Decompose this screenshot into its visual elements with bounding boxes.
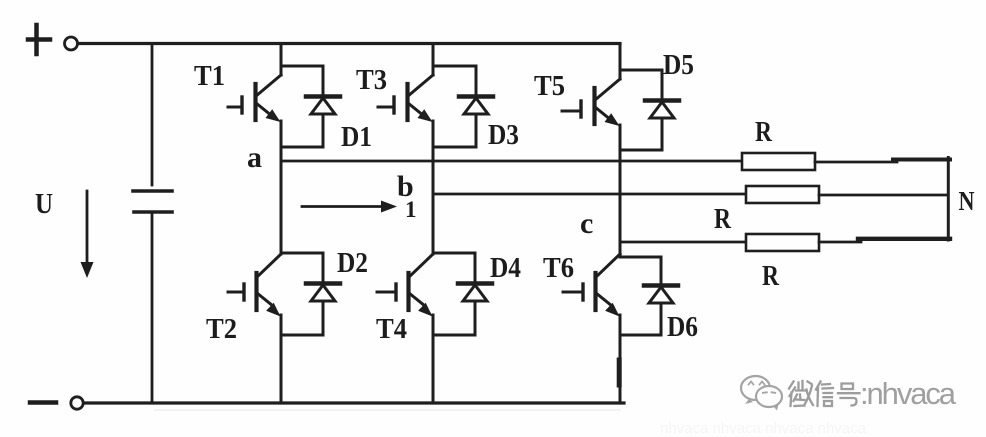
arrow: U direction [81, 191, 94, 278]
微 [789, 381, 813, 406]
svg-text:R: R [762, 260, 780, 292]
svg-text:c: c [580, 207, 593, 240]
wire: leg b upper [432, 44, 435, 76]
svg-text:D6: D6 [667, 311, 698, 343]
wire: leg a lower [280, 315, 283, 403]
svg-text:U: U [35, 189, 53, 220]
watermark wechat icon [741, 376, 782, 411]
diode D1 [281, 66, 340, 147]
svg-text:R: R [714, 203, 732, 235]
wire: phase c to N [819, 241, 861, 244]
transistor T5 [562, 79, 620, 126]
transistor T4 [377, 254, 433, 317]
transistor T6 [563, 254, 620, 317]
arrow: current direction [302, 201, 397, 213]
watermark text 微信号 (drawn strokes) [789, 381, 860, 406]
diode D4 [433, 253, 492, 335]
- terminal [30, 400, 56, 405]
capacitor C (dc link) [133, 44, 172, 404]
svg-text:D5: D5 [663, 49, 694, 81]
svg-text:N: N [959, 186, 975, 216]
wire: leg b lower [432, 315, 435, 403]
wire: phase a to N [815, 161, 897, 164]
transistor T1 [228, 75, 281, 122]
号 [838, 384, 860, 406]
wire: phase b line [433, 193, 746, 196]
wire: phase a line [281, 160, 742, 163]
svg-text:a: a [247, 141, 262, 174]
transistor T2 [228, 254, 281, 317]
svg-text::nhvaca: :nhvaca [860, 376, 957, 411]
wire: phase a jog [893, 158, 950, 162]
svg-text:T3: T3 [356, 64, 387, 96]
svg-text:1: 1 [405, 197, 417, 222]
svg-text:D1: D1 [341, 121, 372, 153]
svg-text:T4: T4 [376, 313, 407, 345]
transistor T3 [378, 75, 433, 122]
diode D3 [433, 66, 493, 147]
wire: leg a middle [280, 121, 283, 254]
+ terminal circle [65, 37, 78, 50]
wire: leg c lower [619, 315, 622, 403]
svg-text:D2: D2 [337, 247, 368, 279]
diode D2 [281, 253, 340, 335]
wire: leg c middle [619, 125, 622, 254]
svg-text:R: R [755, 116, 773, 148]
wire: N junction vertical [947, 158, 950, 241]
信 [816, 382, 833, 407]
resistor R (phase a) [742, 153, 815, 170]
faint bottom ghosts [155, 409, 620, 411]
svg-text:T2: T2 [206, 313, 237, 345]
wire: leg b middle [432, 121, 435, 254]
- terminal circle [71, 397, 83, 409]
svg-text:T1: T1 [194, 60, 225, 92]
diode D6 [620, 257, 678, 335]
diode D5 [620, 70, 679, 150]
svg-text:nhvaca nhvaca nhvaca nhvaca: nhvaca nhvaca nhvaca nhvaca [660, 420, 867, 437]
resistor R (phase c) [746, 234, 819, 251]
svg-text:D4: D4 [490, 252, 521, 284]
svg-text:T6: T6 [543, 252, 574, 284]
wire: leg a upper [280, 44, 283, 76]
wire: leg c upper [619, 44, 622, 80]
wire: bottom DC rail [84, 401, 624, 404]
wire: top DC rail [78, 42, 620, 45]
wire: phase c line [620, 241, 746, 244]
wire: phase b to N [819, 194, 948, 197]
resistor R (phase b) [746, 186, 819, 203]
svg-text:D3: D3 [488, 119, 519, 151]
svg-text:T5: T5 [534, 70, 565, 102]
+ terminal [28, 25, 50, 54]
